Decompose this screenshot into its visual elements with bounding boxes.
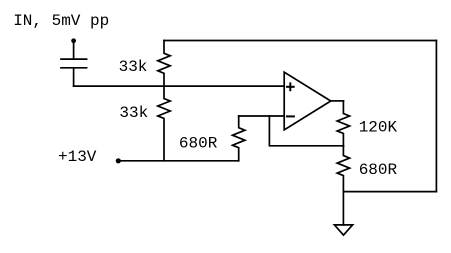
wire top feedback: [164, 40, 436, 42]
svg-text:680R: 680R: [179, 135, 218, 153]
capacitor C1: [61, 41, 87, 86]
wire op-amp output: [331, 100, 344, 102]
op-amp U1: [284, 72, 331, 130]
resistor R1 33k: [158, 41, 170, 87]
ground: [334, 225, 352, 235]
resistor R4 120K: [337, 101, 349, 146]
resistor R5 680R: [337, 146, 349, 192]
svg-text:33k: 33k: [119, 104, 148, 122]
node IN terminal dot: [71, 38, 76, 43]
svg-text:IN, 5mV pp: IN, 5mV pp: [13, 12, 109, 30]
node +13V dot: [116, 158, 121, 163]
svg-text:33k: 33k: [119, 58, 148, 76]
wire R3 to op-amp - input: [239, 115, 285, 117]
wire right side: [435, 41, 437, 192]
wire +13V rail: [118, 160, 238, 162]
wire bottom right: [343, 191, 436, 193]
svg-text:+13V: +13V: [58, 148, 97, 166]
wire to ground: [342, 192, 344, 225]
resistor R2 33k: [158, 86, 170, 161]
wire capacitor to op-amp + input: [74, 85, 284, 87]
svg-text:120K: 120K: [359, 119, 398, 137]
svg-text:680R: 680R: [359, 161, 398, 179]
resistor R3 680R: [233, 116, 245, 161]
wire feedback from - input to divider: [269, 116, 343, 146]
